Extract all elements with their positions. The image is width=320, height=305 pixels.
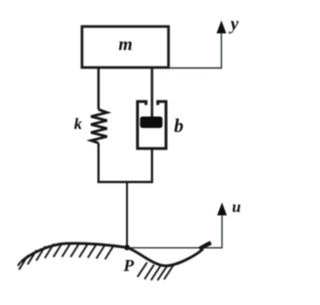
svg-text:u: u bbox=[232, 199, 241, 216]
svg-text:m: m bbox=[118, 34, 132, 54]
ground surface left tip bbox=[18, 262, 22, 267]
wire from box to y axis bbox=[169, 32, 221, 68]
ground surface curve bbox=[22, 243, 204, 265]
datum wire from P to u axis bbox=[130, 214, 222, 248]
y axis arrow bbox=[217, 22, 226, 34]
hatching right patch bbox=[138, 263, 174, 281]
svg-text:b: b bbox=[174, 116, 184, 137]
damper cup U1 bbox=[138, 102, 167, 149]
hatching left patch bbox=[19, 243, 114, 270]
wire from damper bottom to joiner bbox=[151, 149, 153, 184]
u axis arrow bbox=[218, 204, 227, 216]
wire from joiner to P bbox=[126, 182, 128, 246]
svg-text:y: y bbox=[229, 14, 240, 34]
wire from spring bottom to joiner bbox=[97, 143, 99, 183]
joiner wire bbox=[97, 181, 153, 183]
svg-text:P: P bbox=[123, 256, 135, 275]
node P dot bbox=[124, 245, 130, 251]
ground surface right tip blob bbox=[200, 243, 212, 249]
spring k bbox=[91, 110, 107, 144]
damper rod from box bbox=[151, 68, 153, 119]
mass m box bbox=[82, 27, 169, 68]
wire from box bottom to spring top bbox=[97, 68, 99, 110]
svg-text:k: k bbox=[74, 116, 82, 133]
damper piston bbox=[140, 117, 163, 129]
